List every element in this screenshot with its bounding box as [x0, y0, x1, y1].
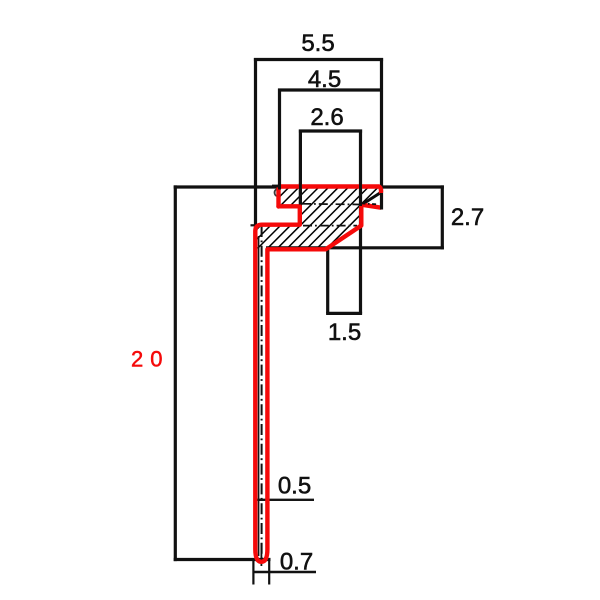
svg-text:20: 20 — [131, 347, 169, 372]
svg-text:0.5: 0.5 — [278, 473, 311, 500]
svg-text:5.5: 5.5 — [301, 30, 334, 57]
svg-text:0.7: 0.7 — [280, 549, 313, 576]
svg-text:2.6: 2.6 — [310, 104, 343, 131]
svg-text:2.7: 2.7 — [451, 204, 484, 231]
svg-text:1.5: 1.5 — [328, 319, 361, 346]
svg-text:4.5: 4.5 — [308, 66, 341, 93]
